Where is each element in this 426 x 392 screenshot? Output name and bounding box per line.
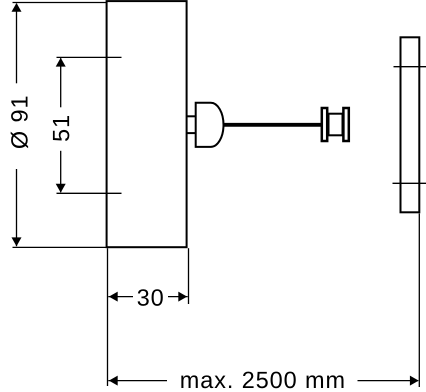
dimension 51: dimension line upper segment [60, 58, 62, 107]
dimension max 2500: dimension line left segment [108, 380, 167, 382]
dimension 51: top extension line [57, 56, 122, 58]
dimension Ø91: label [11, 97, 28, 149]
dimension Ø91: top extension line [13, 2, 107, 4]
dimension max 2500: dimension line right segment [358, 380, 419, 382]
dimension max 2500: arrow right [410, 376, 419, 386]
dimension 51: arrow down [56, 184, 66, 193]
dimension 30: arrow left [109, 292, 118, 302]
dimension 30: right extension line [188, 248, 190, 304]
plug barrel ring 1 [322, 108, 327, 141]
plug body middle [329, 114, 343, 136]
dimension 51: dimension line lower segment [60, 151, 62, 192]
plug barrel ring 2 [343, 108, 348, 141]
dimension Ø91: dimension line lower segment [16, 169, 18, 246]
dimension 30: dimension line left segment [108, 296, 133, 298]
wall break line top [394, 66, 426, 68]
dimension 30: dimension line right segment [168, 296, 188, 298]
dimension Ø91: bottom extension line [13, 246, 107, 248]
wall plate (cross-section) [401, 37, 420, 212]
connector stub on device [187, 116, 196, 133]
dimension 51: label [53, 116, 69, 141]
dimension max 2500: label [181, 372, 343, 389]
dimension Ø91: arrow up [12, 3, 22, 12]
cable grommet (D-shape) [196, 103, 224, 147]
cable [223, 123, 322, 127]
dimension Ø91: arrow down [12, 237, 22, 246]
wall break line bottom [393, 182, 426, 184]
dimension 30: left extension line [107, 248, 109, 386]
dimension max 2500: arrow left [109, 376, 118, 386]
dimension max 2500: right extension line (from wall plate) [418, 214, 420, 388]
device body (side view rectangle) [107, 1, 187, 247]
dimension Ø91: dimension line upper segment [16, 4, 18, 84]
dimension 51: bottom extension line [57, 192, 122, 194]
dimension 30: label [138, 289, 163, 306]
dimension 51: arrow up [56, 58, 66, 67]
dimension 30: arrow right [178, 292, 187, 302]
